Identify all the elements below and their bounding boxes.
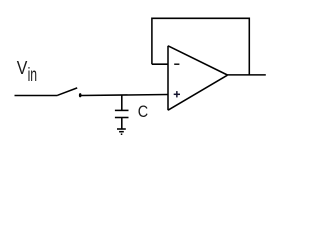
svg-text:C: C <box>138 103 148 121</box>
svg-text:in: in <box>28 64 37 86</box>
svg-text:V: V <box>17 57 28 78</box>
